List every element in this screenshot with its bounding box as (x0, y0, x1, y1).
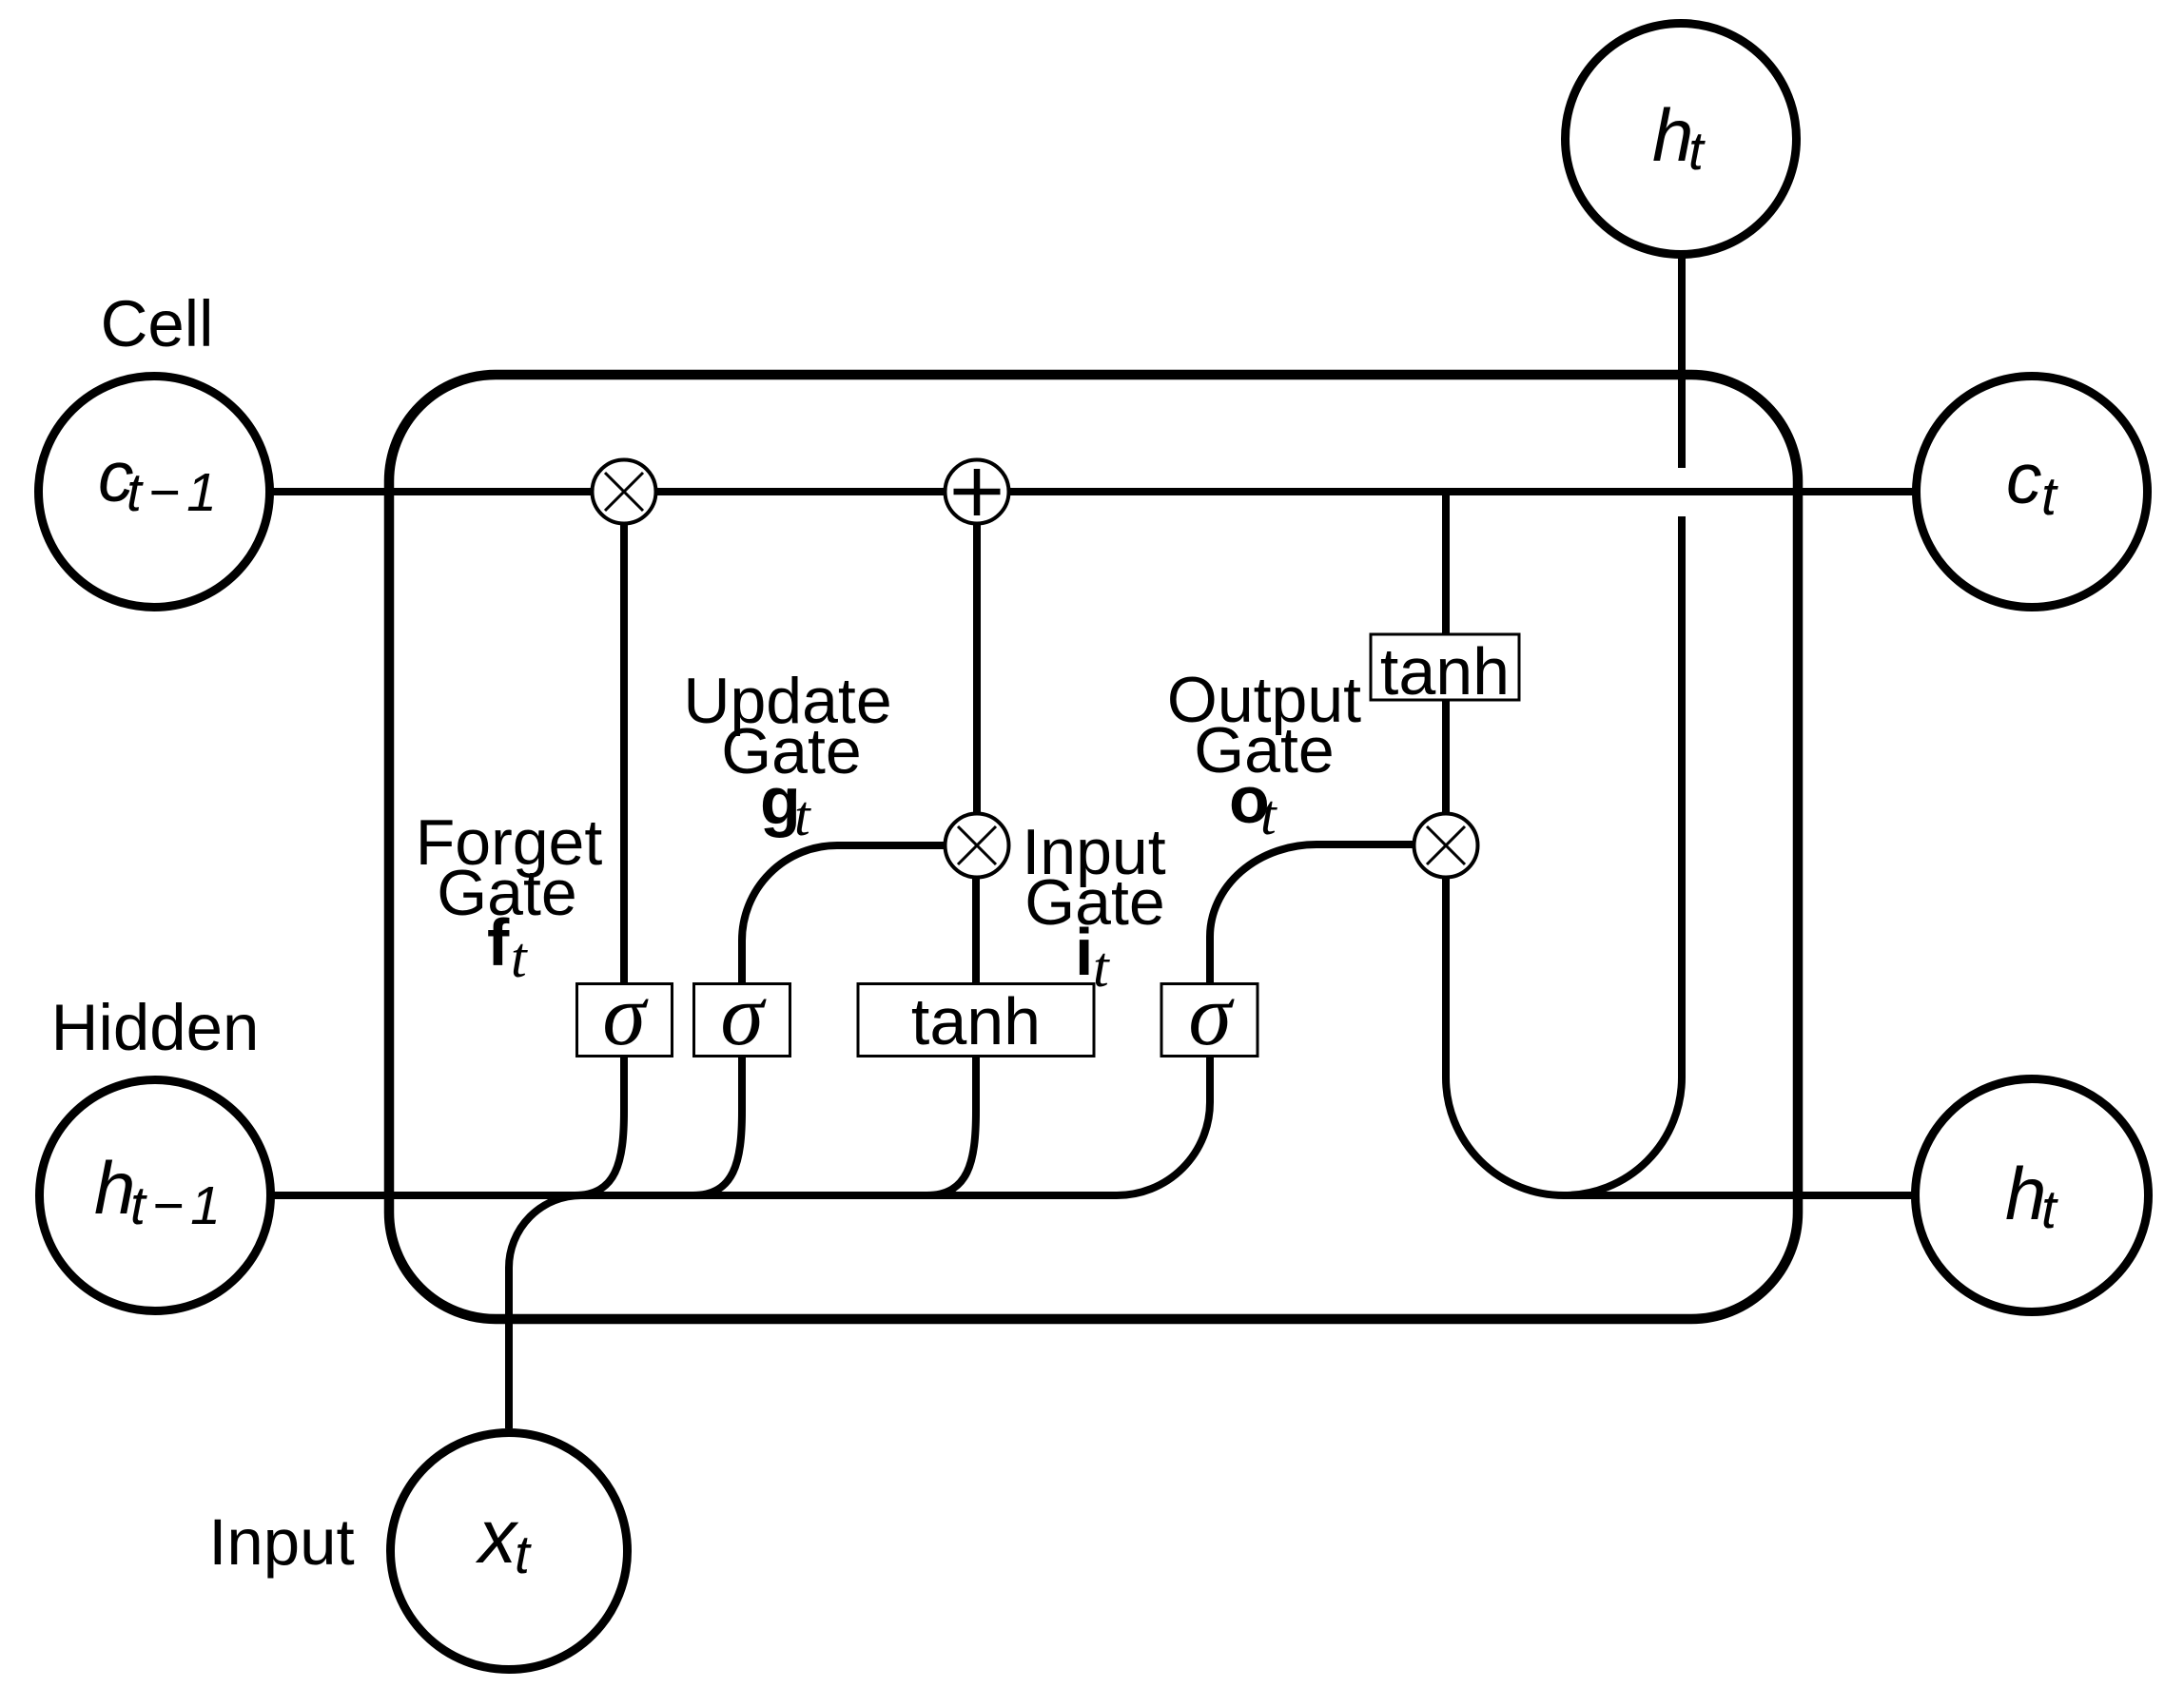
operator add (946, 460, 1009, 524)
svg-text:Cell: Cell (101, 287, 214, 360)
svg-text:h: h (1652, 93, 1693, 177)
box tanh cell output (1371, 634, 1519, 700)
svg-text:σ: σ (720, 966, 767, 1063)
operator multiply output (1414, 814, 1478, 878)
label x_t (475, 1494, 532, 1585)
svg-text:t: t (2041, 466, 2058, 527)
box sigma output (1161, 984, 1258, 1057)
label h_t-1 (94, 1146, 227, 1236)
label Input Gate i_t (1022, 816, 1165, 999)
node c_t circle (1917, 377, 2148, 608)
svg-text:σ: σ (602, 966, 649, 1063)
wire input x_t rise and merge (509, 1195, 581, 1428)
svg-text:t: t (1688, 121, 1706, 182)
svg-text:t: t (511, 926, 528, 989)
svg-text:i: i (1075, 915, 1093, 989)
wire cell line branch through tanh box (1442, 492, 1450, 634)
box sigma update (694, 984, 790, 1057)
svg-text:tanh: tanh (1380, 634, 1510, 708)
svg-text:t: t (794, 785, 811, 847)
svg-text:x: x (475, 1494, 519, 1579)
svg-text:Hidden: Hidden (51, 991, 260, 1064)
label Output Gate o_t (1167, 664, 1361, 846)
label c_t-1 (98, 437, 224, 523)
wire forget gate bottom bend (575, 1057, 624, 1195)
wire tanh gate vertical to product (972, 878, 980, 984)
svg-text:t: t (2041, 1179, 2058, 1240)
wire cell state line c (270, 488, 1914, 495)
box sigma forget (577, 984, 673, 1057)
wire tanh box to output product (1442, 700, 1450, 814)
svg-text:t: t (515, 1524, 532, 1585)
label c_t (2006, 438, 2058, 527)
wire hidden input line h (270, 983, 1210, 1195)
wire add to product vertical (973, 524, 981, 814)
node h_t-1 circle (40, 1080, 271, 1311)
operator multiply forget (593, 460, 656, 524)
svg-text:f: f (487, 905, 510, 980)
svg-text:σ: σ (1188, 966, 1235, 1063)
LSTM cell body (rounded rectangle) (389, 375, 1798, 1319)
wire update gate top bend into product (742, 845, 946, 983)
label Update Gate g_t (683, 665, 891, 847)
svg-text:tanh: tanh (911, 984, 1041, 1058)
svg-text:t: t (1260, 784, 1277, 846)
wire tanh gate bottom bend (926, 1057, 976, 1195)
operator multiply input (946, 814, 1009, 878)
svg-text:h: h (94, 1146, 135, 1230)
svg-text:Gate: Gate (1024, 866, 1164, 939)
node h_t bottom circle (1916, 1079, 2149, 1312)
node x_t circle (391, 1433, 628, 1670)
svg-text:t−1: t−1 (127, 462, 224, 523)
wire update gate bottom bend (692, 1057, 742, 1195)
node h_t top circle (1566, 24, 1797, 255)
wire output gate top bend into product (1210, 844, 1414, 983)
wire forget gate vertical (620, 524, 628, 983)
svg-text:Input: Input (208, 1505, 354, 1579)
box tanh gate (858, 984, 1094, 1057)
svg-text:h: h (2005, 1152, 2046, 1235)
wire top h_t stub above cell line bridge (1678, 255, 1686, 468)
wire output-gate product down and U-turn up to top h_t (1446, 516, 1682, 1195)
label h_t top (1652, 93, 1706, 182)
node c_t-1 circle (39, 377, 270, 608)
svg-text:c: c (2006, 438, 2042, 518)
label h_t bottom (2005, 1152, 2058, 1240)
wire hidden output line to h_t (1564, 1192, 1918, 1199)
label Forget Gate f_t (416, 806, 603, 989)
svg-text:t: t (1093, 936, 1110, 999)
svg-text:t−1: t−1 (130, 1175, 227, 1236)
